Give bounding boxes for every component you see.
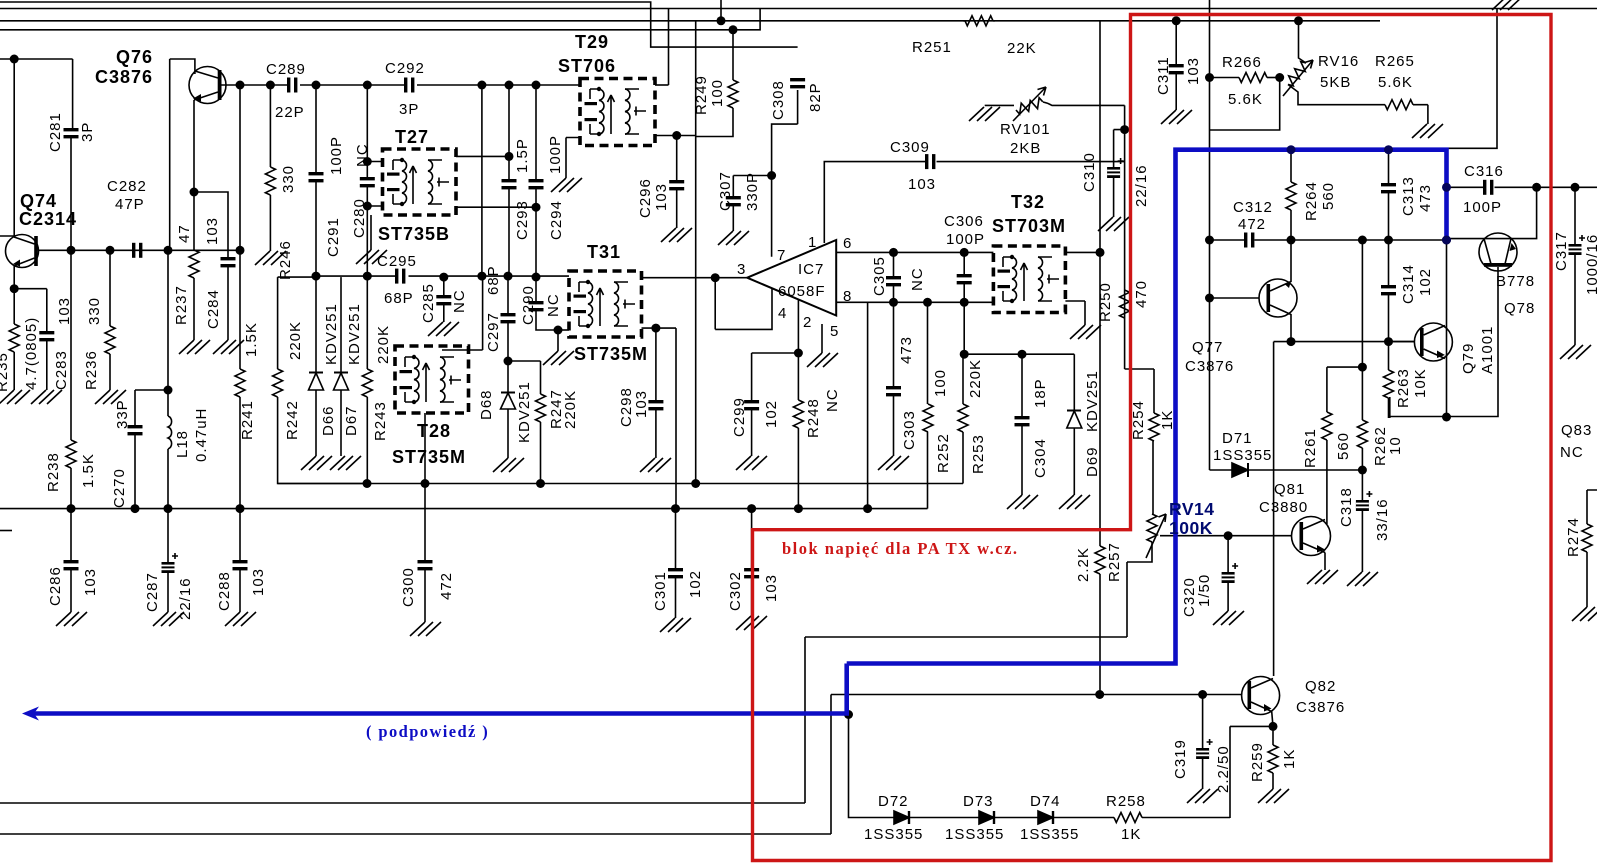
svg-text:102: 102 (1417, 268, 1434, 296)
node rail A R247 (536, 479, 545, 488)
svg-text:C285: C285 (420, 283, 437, 323)
red block outline (753, 15, 1552, 861)
svg-text:C307: C307 (717, 171, 734, 211)
wire R238 column (70, 250, 72, 440)
node RV16 top (1294, 16, 1303, 25)
wire pin2 down (797, 300, 799, 354)
capacitor C281 (64, 128, 79, 138)
capacitor C294 100P (535, 85, 537, 179)
wire Q77 collector down (1290, 314, 1292, 342)
svg-text:2.2K: 2.2K (1075, 547, 1092, 582)
node pin2 junction (794, 349, 803, 358)
svg-text:KDV251: KDV251 (323, 303, 340, 365)
transformer T32 (993, 246, 1065, 313)
ground C317 (1560, 345, 1591, 359)
resistor R263 10K (1388, 342, 1390, 370)
transistor Q81 (1292, 517, 1331, 556)
ground C310 (1098, 217, 1129, 231)
capacitor C307 330P (726, 196, 741, 206)
svg-text:1K: 1K (1121, 826, 1141, 843)
wire Q76 emitter (193, 100, 195, 192)
wire bus line1 (0, 2, 798, 47)
svg-text:Q83: Q83 (1561, 422, 1592, 439)
wire C312 row y240 (1210, 239, 1448, 241)
svg-text:1: 1 (808, 234, 817, 251)
svg-text:C312: C312 (1233, 199, 1273, 216)
svg-text:C270: C270 (111, 468, 128, 508)
svg-text:6058F: 6058F (778, 283, 826, 300)
resistor R257 2.2K (1095, 546, 1105, 574)
svg-text:103: 103 (653, 183, 670, 211)
wire R266 left column (1210, 0, 1280, 470)
svg-text:NC: NC (1560, 444, 1584, 461)
capacitor C317 1000/16 (1574, 187, 1576, 244)
node C311 top (1172, 16, 1181, 25)
svg-text:L18: L18 (174, 430, 191, 458)
svg-text:103: 103 (763, 574, 780, 602)
wire Q79 base (1389, 341, 1415, 343)
wire C308 jog (772, 90, 798, 176)
ground Q81 (1307, 570, 1338, 584)
svg-text:C289: C289 (266, 61, 306, 78)
wire top-left row y59 (0, 59, 73, 128)
transistor Q77 (1210, 297, 1260, 299)
transistor Q74 (6, 235, 39, 268)
svg-text:5: 5 (830, 323, 839, 340)
svg-text:C306: C306 (944, 213, 984, 230)
svg-text:R261: R261 (1302, 428, 1319, 468)
node blue end (1442, 236, 1451, 245)
capacitor C295 68P (395, 269, 405, 284)
resistor R247 220K (508, 361, 541, 394)
resistor R254 1K (1153, 369, 1155, 413)
capacitor C296 103 (676, 136, 678, 181)
svg-text:1SS355: 1SS355 (1020, 826, 1079, 843)
svg-text:472: 472 (438, 572, 455, 600)
wire C299 branch (752, 353, 799, 400)
node C293 top (505, 81, 514, 90)
svg-text:C316: C316 (1464, 163, 1504, 180)
svg-text:Q78: Q78 (1504, 300, 1535, 317)
wire top right feed (1448, 9, 1498, 149)
ground C290 (543, 351, 574, 365)
potentiometer RV101 2KB (985, 104, 1014, 106)
resistor R236 330 (109, 250, 111, 326)
svg-text:103: 103 (633, 390, 650, 418)
svg-text:T27: T27 (395, 127, 429, 147)
transistor Q79 (1414, 323, 1452, 361)
svg-text:330: 330 (280, 165, 297, 193)
wire bus line2 (0, 8, 1597, 10)
svg-text:100: 100 (709, 79, 726, 107)
capacitor C309 103 (925, 154, 935, 169)
ground C296 (661, 228, 692, 242)
resistor R243 220K (366, 276, 368, 369)
ground C298 (640, 458, 671, 472)
svg-text:473: 473 (1417, 184, 1434, 212)
resistor R235 4.7 (13, 289, 15, 324)
svg-text:C286: C286 (47, 566, 64, 606)
capacitor C313 473 (1388, 150, 1390, 183)
svg-text:R248: R248 (805, 398, 822, 438)
capacitor C280 NC (366, 85, 368, 177)
capacitor C290 NC (535, 277, 537, 301)
wire C281 to node (70, 138, 72, 250)
svg-text:0.47uH: 0.47uH (193, 408, 210, 462)
svg-text:2KB: 2KB (1010, 140, 1041, 157)
svg-text:C303: C303 (901, 410, 918, 450)
wire bottom-left feeds (0, 637, 1241, 834)
resistor R265 5.6K (1385, 100, 1413, 110)
diode D71 1SS355 (1232, 463, 1248, 477)
capacitor C310 22/16 (1114, 130, 1125, 167)
resistor R237 47 (193, 192, 195, 250)
node row240 R264 (1287, 236, 1296, 245)
svg-text:103: 103 (204, 217, 221, 245)
wire T29 bottom-right row (655, 135, 696, 137)
ground R274 (1572, 607, 1597, 621)
node x367 (363, 81, 372, 90)
node rail R241 (236, 504, 245, 513)
svg-text:100P: 100P (547, 135, 564, 174)
wire x1362 column (1361, 240, 1363, 420)
resistor R259 1K (1272, 726, 1274, 745)
svg-text:1000/16: 1000/16 (1584, 234, 1597, 295)
node D71 right (1358, 466, 1367, 475)
wire T32 bottom right to ground (1065, 301, 1085, 325)
ground C299 (736, 456, 767, 470)
wire Q74 emitter down (13, 266, 15, 289)
svg-text:C308: C308 (770, 80, 787, 120)
ground D66 (301, 456, 332, 470)
resistor R238 (66, 440, 76, 468)
svg-text:T31: T31 (587, 242, 621, 262)
svg-text:C287: C287 (144, 572, 161, 612)
node blue corner (844, 710, 853, 719)
svg-text:1SS355: 1SS355 (864, 826, 923, 843)
svg-text:KDV251: KDV251 (346, 303, 363, 365)
svg-text:33P: 33P (114, 399, 131, 429)
svg-text:C3876: C3876 (1296, 699, 1345, 716)
svg-text:KDV251: KDV251 (1084, 370, 1101, 432)
resistor R274 (1587, 490, 1597, 524)
wire T29 right pin to bus (655, 84, 669, 86)
node T32 right (1096, 248, 1105, 257)
node x1362 y367 (1358, 363, 1367, 372)
node row240 left (1205, 236, 1214, 245)
node y341 Q77 (1287, 337, 1296, 346)
svg-text:Q77: Q77 (1192, 339, 1223, 356)
capacitor C270 33P (128, 425, 143, 435)
svg-text:C301: C301 (652, 571, 669, 611)
svg-text:ST735B: ST735B (378, 224, 450, 244)
ground C302 (736, 616, 767, 630)
svg-text:Q74: Q74 (20, 191, 57, 211)
svg-text:560: 560 (1320, 182, 1337, 210)
node row277 x508 (504, 272, 513, 281)
svg-text:C319: C319 (1172, 739, 1189, 779)
svg-text:47: 47 (176, 224, 193, 243)
svg-text:C302: C302 (727, 571, 744, 611)
node Q74 emitter (10, 284, 19, 293)
svg-text:R243: R243 (372, 401, 389, 441)
svg-text:1SS355: 1SS355 (945, 826, 1004, 843)
wire pin8 row (836, 301, 993, 303)
svg-text:R259: R259 (1249, 742, 1266, 782)
svg-text:3P: 3P (399, 101, 419, 118)
node x536 row277 (532, 273, 541, 282)
node rail A x695 (691, 479, 700, 488)
node y354 left (960, 350, 969, 359)
ground R235 (0, 390, 30, 404)
svg-text:102: 102 (763, 400, 780, 428)
node rail C270 (131, 504, 140, 513)
svg-text:C296: C296 (637, 178, 654, 218)
node T31 bottom right (651, 324, 660, 333)
node y694 C319 (1198, 690, 1207, 699)
svg-text:Q76: Q76 (116, 47, 153, 67)
ground D67 (330, 456, 361, 470)
ground T27 bottom (370, 215, 372, 250)
ground C300 (410, 622, 441, 636)
node y694 R257 (1095, 690, 1104, 699)
svg-text:D74: D74 (1030, 793, 1061, 810)
resistor R242 220K (277, 277, 279, 369)
ground R246 (255, 251, 286, 265)
svg-text:3: 3 (737, 261, 746, 278)
node C317 top (1571, 183, 1580, 192)
wire T31 bottom right (642, 328, 677, 509)
wire T31 output to IC7 pin3 (642, 277, 748, 279)
svg-text:RV101: RV101 (1000, 121, 1051, 138)
node x508 y361 (504, 357, 513, 366)
svg-text:22P: 22P (275, 104, 305, 121)
wire T31 bottom-left stub (558, 329, 569, 331)
wire pin7/pin4 vertical (715, 176, 772, 330)
ground C320 (1213, 611, 1244, 625)
node R249 top (729, 25, 738, 34)
svg-text:220K: 220K (375, 325, 392, 364)
svg-text:33/16: 33/16 (1374, 498, 1391, 541)
resistor R250 470 (1120, 290, 1130, 318)
node pin8 C306 (960, 298, 969, 307)
svg-text:C281: C281 (47, 112, 64, 152)
node row277 x443 (439, 273, 448, 282)
svg-text:C295: C295 (377, 253, 417, 270)
wire rail B y508.6 (0, 508, 928, 510)
resistor R252 100 (927, 302, 929, 404)
svg-text:C2314: C2314 (19, 209, 77, 229)
svg-text:7: 7 (777, 247, 786, 264)
wire T28 bottom pin to rail A (424, 413, 426, 484)
svg-text:D71: D71 (1222, 430, 1253, 447)
svg-text:C309: C309 (890, 139, 930, 156)
svg-text:RV16: RV16 (1318, 53, 1359, 70)
wire Q77 emitter up (1290, 240, 1292, 282)
svg-text:6: 6 (843, 235, 852, 252)
svg-text:ST735M: ST735M (392, 447, 466, 467)
resistor R246 330 (269, 85, 271, 167)
svg-text:5.6K: 5.6K (1378, 74, 1413, 91)
node C304 top (1018, 350, 1027, 359)
node x240 (236, 81, 245, 90)
wire rail A y483 (278, 483, 963, 485)
capacitor C297 68P (507, 276, 509, 313)
node C316 right (1532, 183, 1541, 192)
wire left vertical to Q74 (0, 59, 14, 236)
wire R241 long column (239, 85, 241, 369)
svg-text:blok napięć dla PA TX w.cz.: blok napięć dla PA TX w.cz. (782, 539, 1019, 558)
node Q82 emitter (1269, 722, 1278, 731)
diode D66 KDV251 (315, 276, 317, 373)
wire C283 branch (14, 289, 47, 331)
diode D74 1SS355 (1038, 811, 1053, 824)
svg-text:47P: 47P (115, 196, 145, 213)
resistor R264 560 (1290, 150, 1292, 182)
wire Q81 emitter to ground (1324, 553, 1326, 571)
resistor R248 NC (797, 353, 799, 400)
svg-text:T28: T28 (417, 421, 451, 441)
inductor L18 0.47uH (168, 416, 172, 449)
svg-text:330: 330 (86, 297, 103, 325)
svg-text:1.5P: 1.5P (514, 138, 531, 173)
wire C284 branch (194, 192, 228, 257)
svg-text:10: 10 (1387, 436, 1404, 455)
node rail L18 (164, 504, 173, 513)
svg-text:T29: T29 (575, 32, 609, 52)
svg-text:C300: C300 (400, 567, 417, 607)
capacitor C298 103 (655, 328, 657, 400)
node blue C316 (1442, 183, 1451, 192)
svg-text:R238: R238 (45, 452, 62, 492)
wire Q82 emitter (1272, 712, 1273, 727)
svg-text:R249: R249 (693, 75, 710, 115)
svg-text:22/16: 22/16 (1133, 164, 1150, 207)
svg-text:Q82: Q82 (1305, 678, 1336, 695)
svg-text:C3876: C3876 (1185, 358, 1234, 375)
svg-text:100P: 100P (328, 136, 345, 175)
ground C287 (153, 612, 184, 626)
svg-text:R235: R235 (0, 352, 11, 392)
svg-text:R237: R237 (173, 285, 190, 325)
wire T29 secondary feed (668, 9, 670, 86)
wire T32 right pin to x1100 (1065, 251, 1100, 253)
svg-text:IC7: IC7 (798, 261, 824, 278)
capacitor C302 103 (751, 509, 753, 568)
svg-text:C318: C318 (1338, 487, 1355, 527)
svg-text:5.6K: 5.6K (1228, 91, 1263, 108)
wire D71 row y470 (1210, 469, 1233, 471)
svg-text:1.5K: 1.5K (243, 322, 260, 357)
svg-text:470: 470 (1133, 280, 1150, 308)
node blue end (1442, 236, 1451, 245)
ground C285 (428, 322, 459, 336)
svg-text:68P: 68P (384, 290, 414, 307)
transformer T28 (395, 346, 469, 413)
wire x867 to rail B (867, 302, 869, 508)
svg-text:C313: C313 (1400, 176, 1417, 216)
node y418 Q79 emitter (1442, 413, 1451, 422)
wire y341 row (1274, 341, 1415, 343)
svg-text:D73: D73 (963, 793, 994, 810)
node C281 col (67, 246, 76, 255)
node rail B x675 (671, 504, 680, 513)
svg-text:103: 103 (82, 568, 99, 596)
svg-text:D66: D66 (320, 405, 337, 436)
node C290 bottom (554, 326, 563, 335)
svg-text:T32: T32 (1011, 192, 1045, 212)
svg-text:R254: R254 (1130, 400, 1147, 440)
node C306 top (960, 248, 969, 257)
wire C307 branch (733, 176, 771, 197)
node rail B R248 (794, 504, 803, 513)
node rail B C302 (747, 504, 756, 513)
svg-text:R252: R252 (935, 433, 952, 473)
svg-text:D69: D69 (1084, 446, 1101, 477)
svg-text:R241: R241 (239, 400, 256, 440)
svg-text:3P: 3P (79, 122, 96, 142)
potentiometer RV14 100K (1147, 514, 1157, 542)
svg-text:220K: 220K (967, 359, 984, 398)
svg-text:RV14: RV14 (1169, 499, 1214, 519)
svg-text:1.5K: 1.5K (80, 453, 97, 488)
wire RV101 right down (1125, 105, 1154, 369)
resistor R262 10 (1357, 420, 1367, 448)
svg-text:ST703M: ST703M (992, 216, 1066, 236)
svg-text:C283: C283 (53, 350, 70, 390)
wire left edge stub (0, 530, 12, 532)
svg-text:102: 102 (687, 570, 704, 598)
wire stub from top edge (720, 0, 722, 21)
resistor R241 1.5K (235, 369, 245, 397)
wire pin1 to C309 row (824, 162, 1124, 243)
svg-text:NC: NC (545, 293, 562, 317)
ground RV101 (969, 107, 1000, 121)
node row240 C313 (1384, 236, 1393, 245)
svg-text:82P: 82P (807, 82, 824, 112)
svg-text:22/16: 22/16 (177, 577, 194, 620)
ground C286 (56, 612, 87, 626)
svg-text:C293: C293 (514, 200, 531, 240)
svg-text:R258: R258 (1106, 793, 1146, 810)
ground C318 (1347, 572, 1378, 586)
ground C304 (1007, 495, 1038, 509)
transistor Q82 (1242, 677, 1280, 715)
ground C311 (1161, 110, 1192, 124)
wire bus line4 (0, 9, 760, 30)
node R266 left (1205, 73, 1214, 82)
svg-text:R265: R265 (1375, 53, 1415, 70)
ground C301 (660, 618, 691, 632)
transformer T31 (569, 271, 642, 337)
ground C303 (878, 456, 909, 470)
svg-text:R264: R264 (1303, 181, 1320, 221)
node C307/C308 junction (767, 171, 776, 180)
svg-text:103: 103 (908, 176, 936, 193)
diode D69 KDV251 (1067, 411, 1082, 429)
capacitor C282 47P (132, 243, 142, 258)
svg-text:1/50: 1/50 (1196, 574, 1213, 607)
ground pin5 (807, 353, 838, 367)
node rail B x869 (863, 504, 872, 513)
node C296 top (672, 131, 681, 140)
ground R265 (1412, 124, 1443, 138)
svg-text:100: 100 (932, 369, 949, 397)
wire x168 column (168, 59, 170, 416)
svg-text:Q81: Q81 (1274, 481, 1305, 498)
node row240 x1362 (1358, 236, 1367, 245)
wire C316 row y187 (1448, 186, 1597, 188)
